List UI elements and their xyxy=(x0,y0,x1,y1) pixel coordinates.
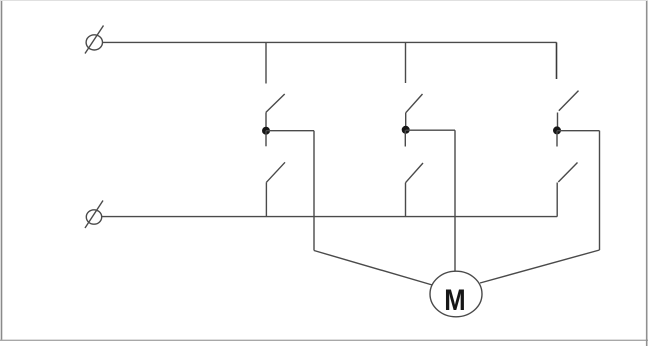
wire: drop from top rail to switch S3a xyxy=(556,42,558,79)
terminal L1 (top supply terminal, circle with slash) xyxy=(85,26,104,54)
frame: right page border xyxy=(646,0,648,346)
wire: node B to switch S2b xyxy=(404,130,406,146)
switch S1a (upper contact, pole 1) xyxy=(266,94,285,112)
frame: bottom page border xyxy=(0,339,648,341)
wire: bottom supply rail xyxy=(102,216,558,218)
switch S1b (lower contact, pole 1) xyxy=(266,162,285,182)
switch S3b (lower contact, pole 3) xyxy=(558,163,577,183)
wire: node C to output drop 3 xyxy=(557,130,600,132)
wire: node B to output drop 2 xyxy=(406,129,455,131)
wire: output 1 vertical drop xyxy=(313,131,315,251)
frame: left page border xyxy=(1,0,3,341)
svg-text:M: M xyxy=(444,285,465,317)
wire: output 3 diagonal to motor xyxy=(480,250,600,283)
wire: S3b to bottom rail xyxy=(556,183,558,217)
switch S2a (upper contact, pole 2) xyxy=(406,94,423,113)
wire: top supply rail xyxy=(102,41,556,43)
wire: S1a to node A xyxy=(265,112,267,131)
node C (junction dot, pole 3) xyxy=(553,126,561,134)
wire: node C to switch S3b xyxy=(556,131,558,147)
frame: top page border xyxy=(0,0,648,2)
node B (junction dot, pole 2) xyxy=(402,126,410,134)
wire: S2b to bottom rail xyxy=(405,183,407,217)
wire: drop from top rail to switch S1a xyxy=(265,42,267,83)
wire: drop from top rail to switch S2a xyxy=(405,42,407,83)
wire: node A to switch S1b xyxy=(265,131,267,147)
wire: output 3 vertical drop xyxy=(599,131,601,250)
node A (junction dot, pole 1) xyxy=(262,127,270,135)
wire: output 1 diagonal to motor xyxy=(314,251,434,286)
terminal L2 (bottom supply terminal, circle with slash) xyxy=(85,201,103,229)
wire: S1b to bottom rail xyxy=(265,182,267,216)
wire: node A to output drop 1 xyxy=(266,130,314,132)
switch S3a (upper contact, pole 3) xyxy=(559,91,579,111)
motor M1 (circle) xyxy=(430,271,482,317)
wire: S2a to node B xyxy=(405,113,407,131)
wire: output 2 vertical drop to motor xyxy=(454,130,456,271)
wire: S3a to node C xyxy=(557,113,559,131)
switch S2b (lower contact, pole 2) xyxy=(406,163,424,183)
